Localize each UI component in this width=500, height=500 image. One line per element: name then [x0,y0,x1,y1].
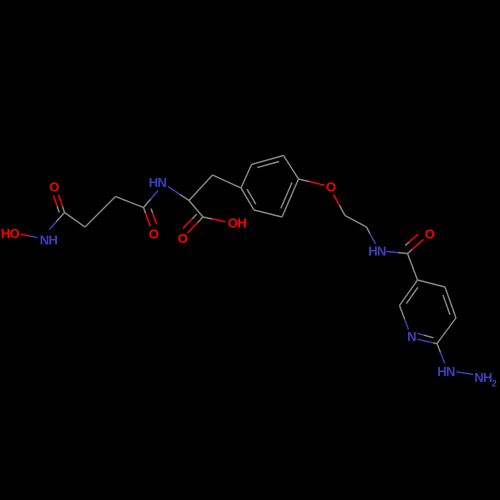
bond Cacid-OH [203,217,212,219]
double bond C2=O2 main [144,208,146,214]
benzene edge V6V1 [241,165,252,189]
pyridine inner double line [417,333,424,335]
bond NH-NH2 [457,372,474,375]
bond Cam-C3py [408,254,418,281]
bond HO-NH [21,234,30,236]
svg-text:HN: HN [368,244,386,259]
double bond Cacid=Oacid second [192,214,197,219]
svg-text:OH: OH [228,216,247,231]
bond CH2c-CH2d [345,216,367,228]
benzene edge V4V5 [284,156,299,180]
pyridine bond C6-N1 [433,342,437,345]
bond CH2benzyl-ring [213,175,242,188]
benzene inner double line [257,162,279,168]
pyridine bond C3-C4 [418,280,446,287]
svg-text:O: O [49,180,59,195]
benzene edge V5V6 [252,156,284,165]
bond Ca-CH2benzyl [189,175,213,201]
svg-text:N: N [407,329,416,344]
pyridine inner double line [406,297,411,304]
bond C2-HN1 [144,199,151,208]
bond CH2b-C2 [116,197,144,208]
pyridine bond C5-C6 [437,318,456,344]
double bond C2=O2 second [151,209,153,214]
svg-text:NH: NH [40,233,58,248]
svg-text:HO: HO [1,226,20,241]
svg-text:HN: HN [149,175,167,190]
pyridine bond C2-C3 [400,280,418,306]
double bond C1=O1 second [57,206,59,213]
svg-text:O: O [149,227,159,242]
double bond Cam=Oam main [408,249,413,253]
bond Oether-CH2c [334,195,340,206]
bond CH2a-CH2b [85,197,116,228]
svg-text:2: 2 [492,378,497,388]
double bond C1=O1 main [62,206,64,212]
bond NH-C1 [50,222,57,230]
pyridine inner double line [443,295,446,303]
pyridine bond N1-C2 [405,319,409,329]
pyridine bond C4-C5 [445,287,456,318]
benzene edge V3V4 [282,179,299,217]
bond C6-NHhydrazine [437,344,441,353]
benzene edge V2V3 [254,210,282,217]
double bond Cacid=Oacid main [198,217,203,223]
benzene edge V1V2 [241,188,254,210]
bond CH2d-HN2 [367,227,370,234]
bond ring-Oether [299,179,310,182]
bond HN1-Ca [168,187,180,195]
bond C1-CH2a [65,213,86,228]
benzene inner double line [247,189,256,204]
double bond Cam=Oam second [405,242,409,246]
svg-text:NH: NH [474,370,492,385]
svg-text:HN: HN [437,364,455,379]
svg-text:O: O [425,227,435,242]
bond Ca-Cacid [189,201,203,218]
svg-text:O: O [178,231,188,246]
bond HN2-Cam [387,252,399,253]
benzene inner double line [281,183,292,209]
svg-text:O: O [326,180,336,195]
